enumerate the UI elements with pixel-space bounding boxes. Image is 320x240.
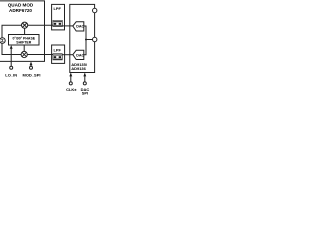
- svg-text:LPF: LPF: [54, 48, 62, 53]
- wire mixer I input from LPF: [28, 24, 52, 26]
- wire LPF2 to DAC2: [52, 54, 73, 56]
- LPF1 filter symbol: [53, 20, 62, 26]
- label AD9136: [71, 66, 86, 71]
- junction dot: [85, 39, 87, 41]
- terminal MOD_SPI: [30, 66, 33, 69]
- pin circle top: [93, 8, 97, 12]
- mixer Q (bottom): [21, 51, 27, 57]
- svg-text:AD9136: AD9136: [71, 66, 86, 71]
- LPF1 box: [52, 4, 65, 30]
- wire phase shifter to mixer Q: [23, 45, 25, 52]
- phase shifter block: [9, 35, 40, 46]
- svg-text:DAC: DAC: [76, 25, 84, 29]
- LPF2 box: [52, 45, 65, 63]
- label MOD_SPI: [22, 73, 40, 78]
- DAC1: [73, 22, 85, 31]
- svg-text:SPI: SPI: [82, 91, 88, 96]
- svg-text:ADRF6720: ADRF6720: [9, 8, 32, 13]
- svg-text:LO_IN: LO_IN: [5, 73, 17, 78]
- label QUAD MOD: [8, 3, 34, 8]
- DAC chip box AD9135/AD9136: [70, 4, 95, 72]
- svg-text:DAC: DAC: [76, 53, 84, 57]
- wire junction to pin: [86, 39, 93, 41]
- DAC2: [73, 50, 85, 59]
- terminal LO_IN: [10, 66, 13, 69]
- svg-text:LPF: LPF: [54, 6, 62, 11]
- label ADRF6720: [9, 8, 32, 13]
- svg-text:CLK±: CLK±: [66, 87, 77, 92]
- svg-text:Σ: Σ: [1, 38, 4, 43]
- svg-text:MOD_SPI: MOD_SPI: [22, 73, 40, 78]
- terminal CLK: [69, 82, 72, 85]
- LPF2 filter symbol: [53, 54, 62, 60]
- wire CLK to DAC box: [69, 73, 72, 82]
- label AD9135/: [71, 62, 88, 67]
- terminal DAC SPI: [83, 82, 86, 85]
- wire phase shifter to mixer I: [24, 28, 26, 34]
- summer: [0, 38, 5, 44]
- label LO_IN: [5, 73, 17, 78]
- wire LO_IN to phase shifter: [10, 45, 13, 66]
- wire DAC SPI to DAC box: [83, 73, 86, 82]
- wire DAC data bus: [84, 26, 86, 55]
- pin circle data: [93, 37, 97, 41]
- mixer I (top): [22, 22, 28, 28]
- wire mixer Q input from LPF: [27, 54, 51, 56]
- quad modulator box ADRF6720: [0, 1, 45, 62]
- svg-text:SHIFTER: SHIFTER: [16, 40, 31, 44]
- wire mixer I output to summer: [2, 25, 22, 38]
- wire LPF1 to DAC1: [52, 24, 73, 27]
- label DAC SPI: [81, 87, 90, 96]
- label CLK: [66, 87, 77, 92]
- wire MOD_SPI to quad mod box: [30, 62, 33, 67]
- wire mixer Q output to summer: [2, 43, 21, 54]
